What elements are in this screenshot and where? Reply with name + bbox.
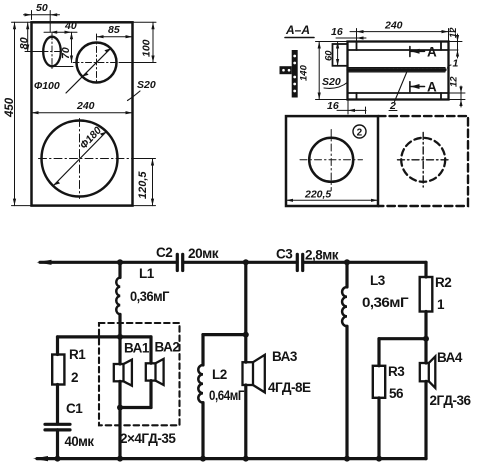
svg-text:450: 450 [4,97,16,118]
capacitor C3 [276,247,339,271]
loudspeaker BA1 [114,337,150,408]
svg-text:20мк: 20мк [188,246,219,261]
svg-text:R2: R2 [435,275,451,290]
svg-text:С1: С1 [66,401,83,416]
loudspeaker BA3 [243,262,311,458]
section arrow A (lower) [410,80,437,95]
node: top bus / L3 [344,259,350,265]
dim 60 (left) [337,42,339,67]
node: top bus / BA3 branch [243,259,249,265]
svg-text:1: 1 [437,297,445,312]
plate outline [286,116,378,206]
svg-text:ВА3: ВА3 [272,349,298,364]
svg-text:2,8мк: 2,8мк [305,248,339,263]
bottom-left corner cleat [348,93,357,100]
dim 40 [44,31,77,33]
svg-text:40мк: 40мк [65,434,95,449]
D100 leader [66,77,82,93]
oval port [43,37,61,67]
node: L2 / bottom bus [200,456,206,462]
wire: R2 junction to R3 [379,337,426,340]
inner top wall line [357,49,449,51]
svg-text:А: А [427,45,437,60]
svg-text:16: 16 [327,100,339,112]
D100 centerlines [73,34,120,84]
resistor R1 [52,337,86,424]
node: BA1 bottom [117,405,123,411]
hole D180 [42,121,118,197]
hole centerlines [300,130,363,191]
inductor L1 [116,262,170,337]
inductor L2 [198,335,244,459]
svg-text:L2: L2 [212,367,227,382]
svg-text:40: 40 [64,20,77,32]
svg-text:80: 80 [19,36,31,49]
svg-text:С2: С2 [156,245,172,260]
svg-text:12: 12 [448,27,459,38]
dim 12 (bottom-right) [449,93,466,100]
loudspeaker BA2 [146,337,180,408]
item mark 2 in circle [353,125,366,138]
wire: top bus right segment [303,261,426,264]
node: R3 / bottom bus [376,456,382,462]
dim 50 (top) [32,11,51,33]
dim 100 (right vertical) [120,22,156,62]
wire: BA1 junction to bottom bus [118,408,121,459]
inductor L3 [342,262,409,458]
mirrored plate (dashed) [378,116,468,206]
svg-text:12: 12 [449,76,460,87]
wire: bottom bus [37,457,426,460]
D180 diameter arrow line [54,132,107,186]
right-side notches [440,42,442,100]
svg-text:L3: L3 [370,273,386,288]
wire: L2 top link [203,333,246,336]
dim 70 (vertical to circle center) [52,32,73,66]
mirrored hole (dashed) [401,138,445,182]
svg-text:0,36мГ: 0,36мГ [130,289,170,304]
svg-text:240: 240 [76,100,95,112]
wire: R1 top to BA2 top [58,335,152,338]
svg-text:0,64мГ: 0,64мГ [209,388,245,403]
svg-text:1: 1 [453,58,459,70]
svg-text:2: 2 [357,128,363,139]
svg-text:0,36мГ: 0,36мГ [362,295,409,310]
dim 450 (far left) [12,22,32,205]
oval centerlines [42,34,62,70]
capacitor C2 [156,245,219,271]
node: R2 bottom junction [423,336,429,342]
cleat cross-section detail (black with holes) [280,50,298,98]
section arrow A (upper) [410,45,437,60]
svg-text:А: А [427,80,437,95]
left wall block [333,44,348,66]
dim 220,5 [286,199,378,201]
svg-text:L1: L1 [139,266,155,281]
loudspeaker BA4 [420,339,472,459]
svg-text:100: 100 [141,39,153,57]
svg-text:4ГД-8Е: 4ГД-8Е [268,380,311,395]
capacitor C1 [45,401,94,459]
svg-text:60: 60 [324,50,335,61]
inner bottom wall line [357,92,449,94]
node: top bus / L1 [117,259,123,265]
mirrored hole centerlines [398,133,450,188]
svg-text:2ГД-36: 2ГД-36 [430,393,472,408]
node: C1 / bottom bus [55,456,61,462]
svg-text:140: 140 [299,64,310,81]
svg-text:220,5: 220,5 [304,189,331,201]
dim 240 (inside) [32,112,133,114]
partition (item 2) hatched strip [348,68,446,72]
wire: top bus middle segment [183,261,297,264]
svg-text:85: 85 [108,24,120,36]
wire: top bus left segment [40,261,177,264]
hole D100 [77,43,117,83]
svg-text:Ф100: Ф100 [34,80,60,92]
dim 16 (bottom-left) [347,101,349,115]
node: L1 bottom junction [117,334,123,340]
svg-text:ВА1: ВА1 [124,341,150,356]
svg-text:ВА2: ВА2 [155,340,180,355]
plate hole [309,138,353,182]
dim 120,5 (bottom right) [133,159,156,206]
dim 16 (top-left) [336,37,366,39]
node: BA1 branch / bottom bus [117,456,123,462]
input arrow bottom [33,456,48,461]
dim 140 (left) [316,42,348,100]
svg-text:R1: R1 [69,347,86,362]
dim 240 (top) [357,29,449,48]
svg-text:70: 70 [60,47,72,59]
svg-text:2×4ГД-35: 2×4ГД-35 [120,431,176,446]
resistor R3 [373,339,405,459]
svg-text:R3: R3 [388,364,405,379]
svg-text:S20: S20 [322,76,341,88]
svg-text:ВА4: ВА4 [437,350,463,365]
svg-text:240: 240 [384,20,403,32]
svg-text:50: 50 [36,2,48,14]
resistor R2 [420,262,452,338]
D100 diameter arrow line [82,48,110,76]
svg-text:А–А: А–А [285,23,310,37]
svg-text:S20: S20 [137,79,156,91]
top-left corner cleat [348,42,357,51]
svg-text:2: 2 [71,370,78,385]
section box outline [348,42,449,100]
svg-text:120,5: 120,5 [137,171,149,199]
node: BA3 / bottom bus [243,456,249,462]
svg-text:56: 56 [389,386,404,401]
svg-text:С3: С3 [276,247,293,262]
dim 12 (top-right) [449,42,463,51]
svg-text:16: 16 [331,26,343,38]
node: L2 link / BA3 branch [243,332,249,338]
wire: BA1-BA2 bottoms [120,406,151,409]
node: L3 / bottom bus [344,456,350,462]
D180 centerlines [39,119,138,199]
input arrow top [37,260,52,265]
front panel outline [32,22,133,205]
dim 85 [97,36,133,38]
dashed group box BA1+BA2 [99,323,180,425]
dim 80 (left vertical) [27,22,29,51]
